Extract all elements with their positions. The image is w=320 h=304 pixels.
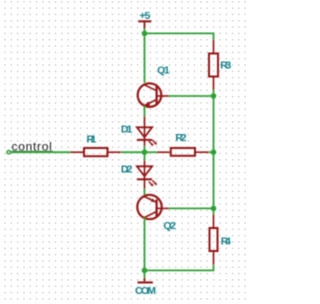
transistor Q1	[138, 65, 170, 107]
wire left bus upper	[144, 33, 146, 82]
wire R3 to junction	[213, 90, 215, 96]
wire control to R1	[10, 151, 70, 153]
svg-text:COM: COM	[135, 285, 156, 297]
node base junction Q2	[211, 206, 217, 212]
wire R2 to right bus	[209, 151, 214, 153]
svg-text:D1: D1	[121, 123, 133, 135]
svg-text:Q2: Q2	[163, 220, 176, 232]
transistor Q2	[137, 195, 176, 232]
power +5	[138, 10, 151, 29]
wire +5 stub	[144, 29, 146, 34]
svg-text:R3: R3	[220, 59, 231, 71]
node top junction	[142, 31, 148, 37]
wire top rail	[145, 33, 214, 39]
node control pin end	[7, 151, 10, 154]
wire Q1 base	[169, 95, 214, 97]
wire D1 to junction	[144, 146, 146, 152]
resistor R1	[70, 133, 121, 156]
svg-text:D2: D2	[121, 163, 133, 175]
LED D1	[121, 117, 157, 147]
svg-text:+5: +5	[139, 10, 150, 22]
wire right bus lower	[213, 152, 215, 208]
node bottom junction	[142, 268, 148, 274]
node mid junction	[142, 149, 148, 155]
resistor R2	[157, 132, 209, 156]
resistor R3	[209, 40, 231, 90]
ground COM	[135, 270, 156, 297]
svg-text:R4: R4	[221, 235, 231, 247]
wire R1 to junction	[121, 151, 144, 153]
wire Q1 emitter to D1	[144, 106, 146, 117]
svg-text:R2: R2	[175, 132, 186, 144]
resistor R4	[210, 208, 231, 264]
wire right bus upper	[213, 96, 215, 152]
wire bottom rail	[145, 265, 214, 271]
LED D2	[121, 161, 157, 190]
node base junction Q1	[211, 93, 217, 99]
wire D2 to Q2	[144, 189, 146, 197]
node right mid junction	[211, 149, 217, 155]
wire Q2 to bottom junction	[144, 218, 146, 271]
wire junction to D2	[144, 152, 146, 160]
svg-text:Q1: Q1	[157, 65, 170, 77]
svg-text:R1: R1	[87, 133, 97, 145]
wire Q2 base	[169, 207, 214, 209]
label control	[12, 140, 54, 154]
wire junction to R2	[145, 151, 158, 153]
